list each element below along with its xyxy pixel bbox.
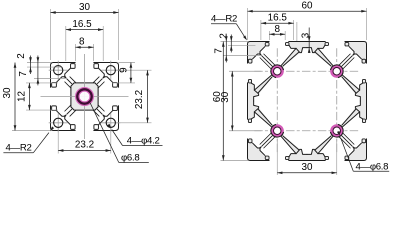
svg-text:8: 8 (275, 24, 281, 35)
dim 8 top (75, 46, 93, 48)
boss at 45,15 (330, 65, 343, 78)
left profile quadrant 3 (51, 105, 77, 131)
svg-text:4—R2: 4—R2 (6, 142, 32, 153)
label 4-phi6.8 right (337, 131, 389, 172)
right profile white voids (245, 39, 370, 164)
right profile quadrant 4 (307, 101, 367, 161)
svg-text:7: 7 (18, 71, 29, 77)
dim 7 left right dwg (225, 35, 227, 63)
right profile quadrant 1 (248, 42, 308, 102)
svg-text:8: 8 (79, 37, 85, 48)
svg-text:3: 3 (301, 32, 312, 38)
dim 7 left (37, 56, 39, 86)
dim 30 left (14, 63, 16, 131)
dim 16.5 top (66, 29, 103, 31)
svg-text:30: 30 (79, 2, 90, 13)
label 4-phi4.2 left (107, 124, 162, 147)
svg-text:2: 2 (16, 53, 27, 59)
dim 30 bottom right dwg (277, 172, 337, 174)
dim 60 left right dwg (222, 42, 224, 161)
right profile outlines (248, 42, 367, 161)
dim 2 left right dwg (230, 35, 232, 53)
dim 23.2 bottom (58, 150, 111, 152)
svg-text:60: 60 (302, 1, 313, 12)
left dim extension lines (12, 9, 152, 154)
svg-text:φ6.8: φ6.8 (121, 152, 139, 163)
dim 9 right (130, 63, 132, 83)
svg-text:9: 9 (119, 67, 130, 73)
label 4-R2 right (211, 14, 247, 41)
left profile corner hole crosshairs (49, 61, 121, 133)
dim 2 left (30, 56, 32, 75)
dim 12 left (28, 83, 30, 110)
svg-text:30: 30 (220, 91, 231, 102)
svg-text:16.5: 16.5 (268, 12, 288, 23)
dim 16.5 top right dwg (261, 22, 294, 24)
right profile quadrant 3 (248, 101, 308, 161)
right profile dashed centerlines (254, 48, 360, 154)
boss at 45,45 (330, 124, 343, 137)
left dims (2, 2, 149, 152)
left profile 30x30 outline (51, 63, 119, 131)
svg-text:30: 30 (2, 87, 13, 98)
svg-text:12: 12 (16, 91, 27, 102)
left profile centerlines (41, 54, 129, 139)
dim 3 top right dwg (308, 28, 310, 54)
dim 30 top (51, 12, 119, 14)
dim 8 top right dwg (269, 33, 285, 35)
right profile base gray material (248, 42, 367, 161)
svg-text:16.5: 16.5 (72, 19, 92, 30)
left profile corner holes 4-phi4.2 (54, 66, 116, 128)
dim 60 top (248, 10, 367, 12)
right dim extension lines (221, 8, 367, 175)
svg-text:23.2: 23.2 (134, 90, 145, 109)
svg-text:4—φ6.8: 4—φ6.8 (356, 161, 389, 172)
dim 23.2 right (147, 70, 149, 123)
boss at 15,45 (271, 124, 284, 137)
svg-text:30: 30 (302, 162, 313, 173)
left profile center core (71, 83, 98, 110)
svg-text:2: 2 (219, 33, 230, 39)
label phi6.8 left (90, 103, 149, 163)
boss at 15,15 (271, 65, 284, 78)
left profile quadrant 2 (93, 63, 119, 89)
svg-text:4—R2: 4—R2 (211, 14, 237, 25)
left profile quadrant 4 (93, 105, 119, 131)
left profile center hole phi6.8 (77, 89, 91, 103)
dim 30 left right dwg (231, 71, 233, 131)
right profile quadrant 2 (307, 42, 367, 102)
right dims (212, 1, 366, 175)
label 4-R2 left (3, 126, 54, 153)
svg-text:23.2: 23.2 (75, 139, 94, 150)
svg-text:4—φ4.2: 4—φ4.2 (127, 135, 160, 146)
left profile quadrant 1 (51, 63, 77, 89)
